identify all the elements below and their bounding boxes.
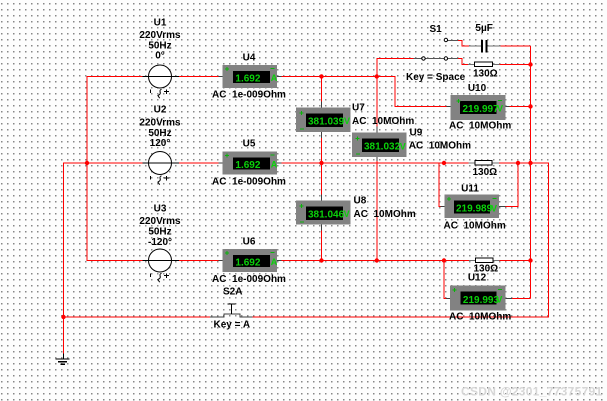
svg-text:0°: 0° (155, 51, 165, 62)
svg-text:U6: U6 (243, 237, 256, 248)
node row B / U11 left (442, 161, 446, 165)
node left rail row B (85, 161, 89, 165)
svg-text:V: V (491, 203, 497, 213)
svg-text:S2A: S2A (223, 287, 242, 298)
svg-text:AC 10MOhm: AC 10MOhm (444, 221, 506, 232)
svg-text:AC 10MOhm: AC 10MOhm (449, 312, 511, 323)
wire row B: U2 to U5 (178, 162, 219, 164)
svg-text:220Vrms: 220Vrms (139, 118, 181, 129)
switch S1 (414, 38, 458, 60)
voltage source U3 (143, 249, 180, 282)
svg-text:AC 1e-009Ohm: AC 1e-009Ohm (212, 274, 286, 285)
svg-text:A: A (271, 159, 278, 169)
wire row B left rail to ground (64, 163, 143, 354)
wire U8 bottom segment (321, 231, 323, 261)
node row C / U12 left (442, 258, 446, 262)
wire U7 bottom segment (321, 138, 323, 163)
ammeter U5 (219, 151, 282, 174)
svg-text:V: V (400, 141, 406, 151)
wire neutral vertical (530, 46, 532, 299)
node row B / neutral (528, 161, 532, 165)
capacitor C1 5uF (469, 40, 501, 53)
wire row B: U5 to 130ohm mid (281, 162, 468, 164)
label U2 values (139, 105, 181, 150)
svg-text:AC 10MOhm: AC 10MOhm (409, 141, 471, 152)
wire 130ohm top right to junction (500, 64, 531, 66)
svg-text:A: A (271, 257, 278, 267)
svg-text:Key = Space: Key = Space (406, 72, 466, 83)
wire U10 right to neutral (509, 105, 530, 107)
svg-text:220Vrms: 220Vrms (139, 216, 181, 227)
node row C / U9 (375, 258, 379, 262)
label U3 values (139, 204, 181, 249)
wire row C: U6 to 130ohm bottom (281, 260, 469, 262)
svg-text:AC 10MOhm: AC 10MOhm (352, 116, 414, 127)
node row B / U11 right (516, 161, 520, 165)
resistor R3 130ohm bottom (469, 258, 500, 263)
svg-text:V: V (496, 295, 502, 305)
resistor R2 130ohm mid (469, 161, 500, 166)
svg-text:V: V (497, 104, 503, 114)
wire capacitor right to neutral vertical (500, 45, 530, 47)
voltmeter U9 (352, 127, 407, 161)
svg-text:U2: U2 (154, 105, 167, 116)
wire bottom neutral left to S2A (64, 316, 211, 318)
ground (56, 354, 70, 365)
svg-text:219.993: 219.993 (463, 295, 500, 306)
svg-text:U5: U5 (243, 139, 256, 150)
wire row A left: U1 to left rail (87, 77, 143, 261)
node ground junction (61, 315, 65, 319)
svg-text:U9: U9 (410, 128, 423, 139)
svg-text:AC 10MOhm: AC 10MOhm (449, 121, 511, 132)
wire U8 top segment (321, 163, 323, 195)
node row B / U7-U8 (319, 161, 323, 165)
svg-text:V: V (344, 116, 350, 126)
wire U11 left riser (439, 163, 441, 206)
svg-text:50Hz: 50Hz (148, 227, 171, 238)
svg-text:130Ω: 130Ω (473, 167, 498, 178)
svg-text:U4: U4 (243, 53, 256, 64)
wire U12 right to neutral (512, 298, 531, 300)
wire riser to S1 common (377, 59, 414, 77)
wire U9 bottom segment (376, 161, 378, 261)
svg-text:V: V (344, 209, 350, 219)
svg-text:AC 10MOhm: AC 10MOhm (354, 209, 416, 220)
svg-text:1.692: 1.692 (235, 257, 260, 268)
wire U9 top segment (376, 77, 378, 127)
svg-text:Key = A: Key = A (214, 320, 251, 331)
ammeter U4 (219, 65, 282, 88)
resistor R1 130ohm top (468, 62, 500, 67)
wire U7 top segment (321, 77, 323, 102)
svg-text:381.032: 381.032 (364, 142, 401, 153)
voltmeter U8 (296, 195, 351, 231)
svg-text:CSDN @2301_77375791: CSDN @2301_77375791 (461, 385, 603, 399)
svg-text:1.692: 1.692 (235, 160, 260, 171)
voltage source U2 (143, 152, 180, 185)
voltmeter U7 (296, 102, 351, 139)
node row A / U7 (319, 74, 323, 78)
voltmeter U10 (446, 95, 509, 120)
node row C / U8 (319, 258, 323, 262)
label U1 values (139, 18, 181, 62)
wire U12 left riser (444, 261, 446, 299)
wire S1 bottom throw to resistor (458, 59, 468, 65)
voltage source U1 (143, 65, 180, 98)
svg-text:U7: U7 (352, 103, 365, 114)
svg-text:AC 1e-009Ohm: AC 1e-009Ohm (212, 177, 286, 188)
svg-text:130Ω: 130Ω (474, 264, 499, 275)
wire row C: U3 to U6 (178, 260, 219, 262)
wire row A: U1 to U4 (178, 76, 219, 78)
svg-text:U8: U8 (354, 196, 367, 207)
wire U11 right riser (505, 163, 518, 206)
node row C / neutral (528, 258, 532, 262)
svg-text:AC 1e-009Ohm: AC 1e-009Ohm (212, 90, 286, 101)
svg-text:A: A (271, 73, 278, 83)
svg-text:U3: U3 (154, 204, 167, 215)
svg-text:220Vrms: 220Vrms (139, 30, 181, 41)
svg-text:U1: U1 (154, 18, 167, 29)
voltmeter U12 (446, 286, 512, 311)
voltmeter U11 (441, 195, 506, 218)
node U10 right (528, 104, 532, 108)
switch S2A pushbutton (210, 304, 253, 317)
svg-text:1.692: 1.692 (235, 73, 260, 84)
ammeter U6 (219, 249, 282, 272)
svg-text:S1: S1 (430, 24, 443, 35)
svg-text:120°: 120° (150, 138, 171, 149)
wire row B ext: resistor to corner down to bottom neutral (253, 163, 549, 317)
svg-text:381.039: 381.039 (308, 116, 345, 127)
svg-text:381.046: 381.046 (308, 209, 345, 220)
node row A / S1-U9 (375, 74, 379, 78)
svg-text:130Ω: 130Ω (473, 69, 498, 80)
wire row A: U4 to corner, down to U10 left (281, 77, 446, 107)
node 130ohm top right (528, 62, 532, 66)
wire S1 top throw to capacitor (458, 41, 469, 47)
svg-text:-120°: -120° (148, 237, 172, 248)
svg-text:U11: U11 (461, 184, 479, 195)
svg-text:219.997: 219.997 (463, 104, 500, 115)
svg-text:5µF: 5µF (475, 23, 492, 34)
svg-text:219.989: 219.989 (456, 204, 493, 215)
svg-text:U10: U10 (468, 83, 487, 94)
wire row C ext: resistor right to neutral vertical (500, 260, 531, 262)
